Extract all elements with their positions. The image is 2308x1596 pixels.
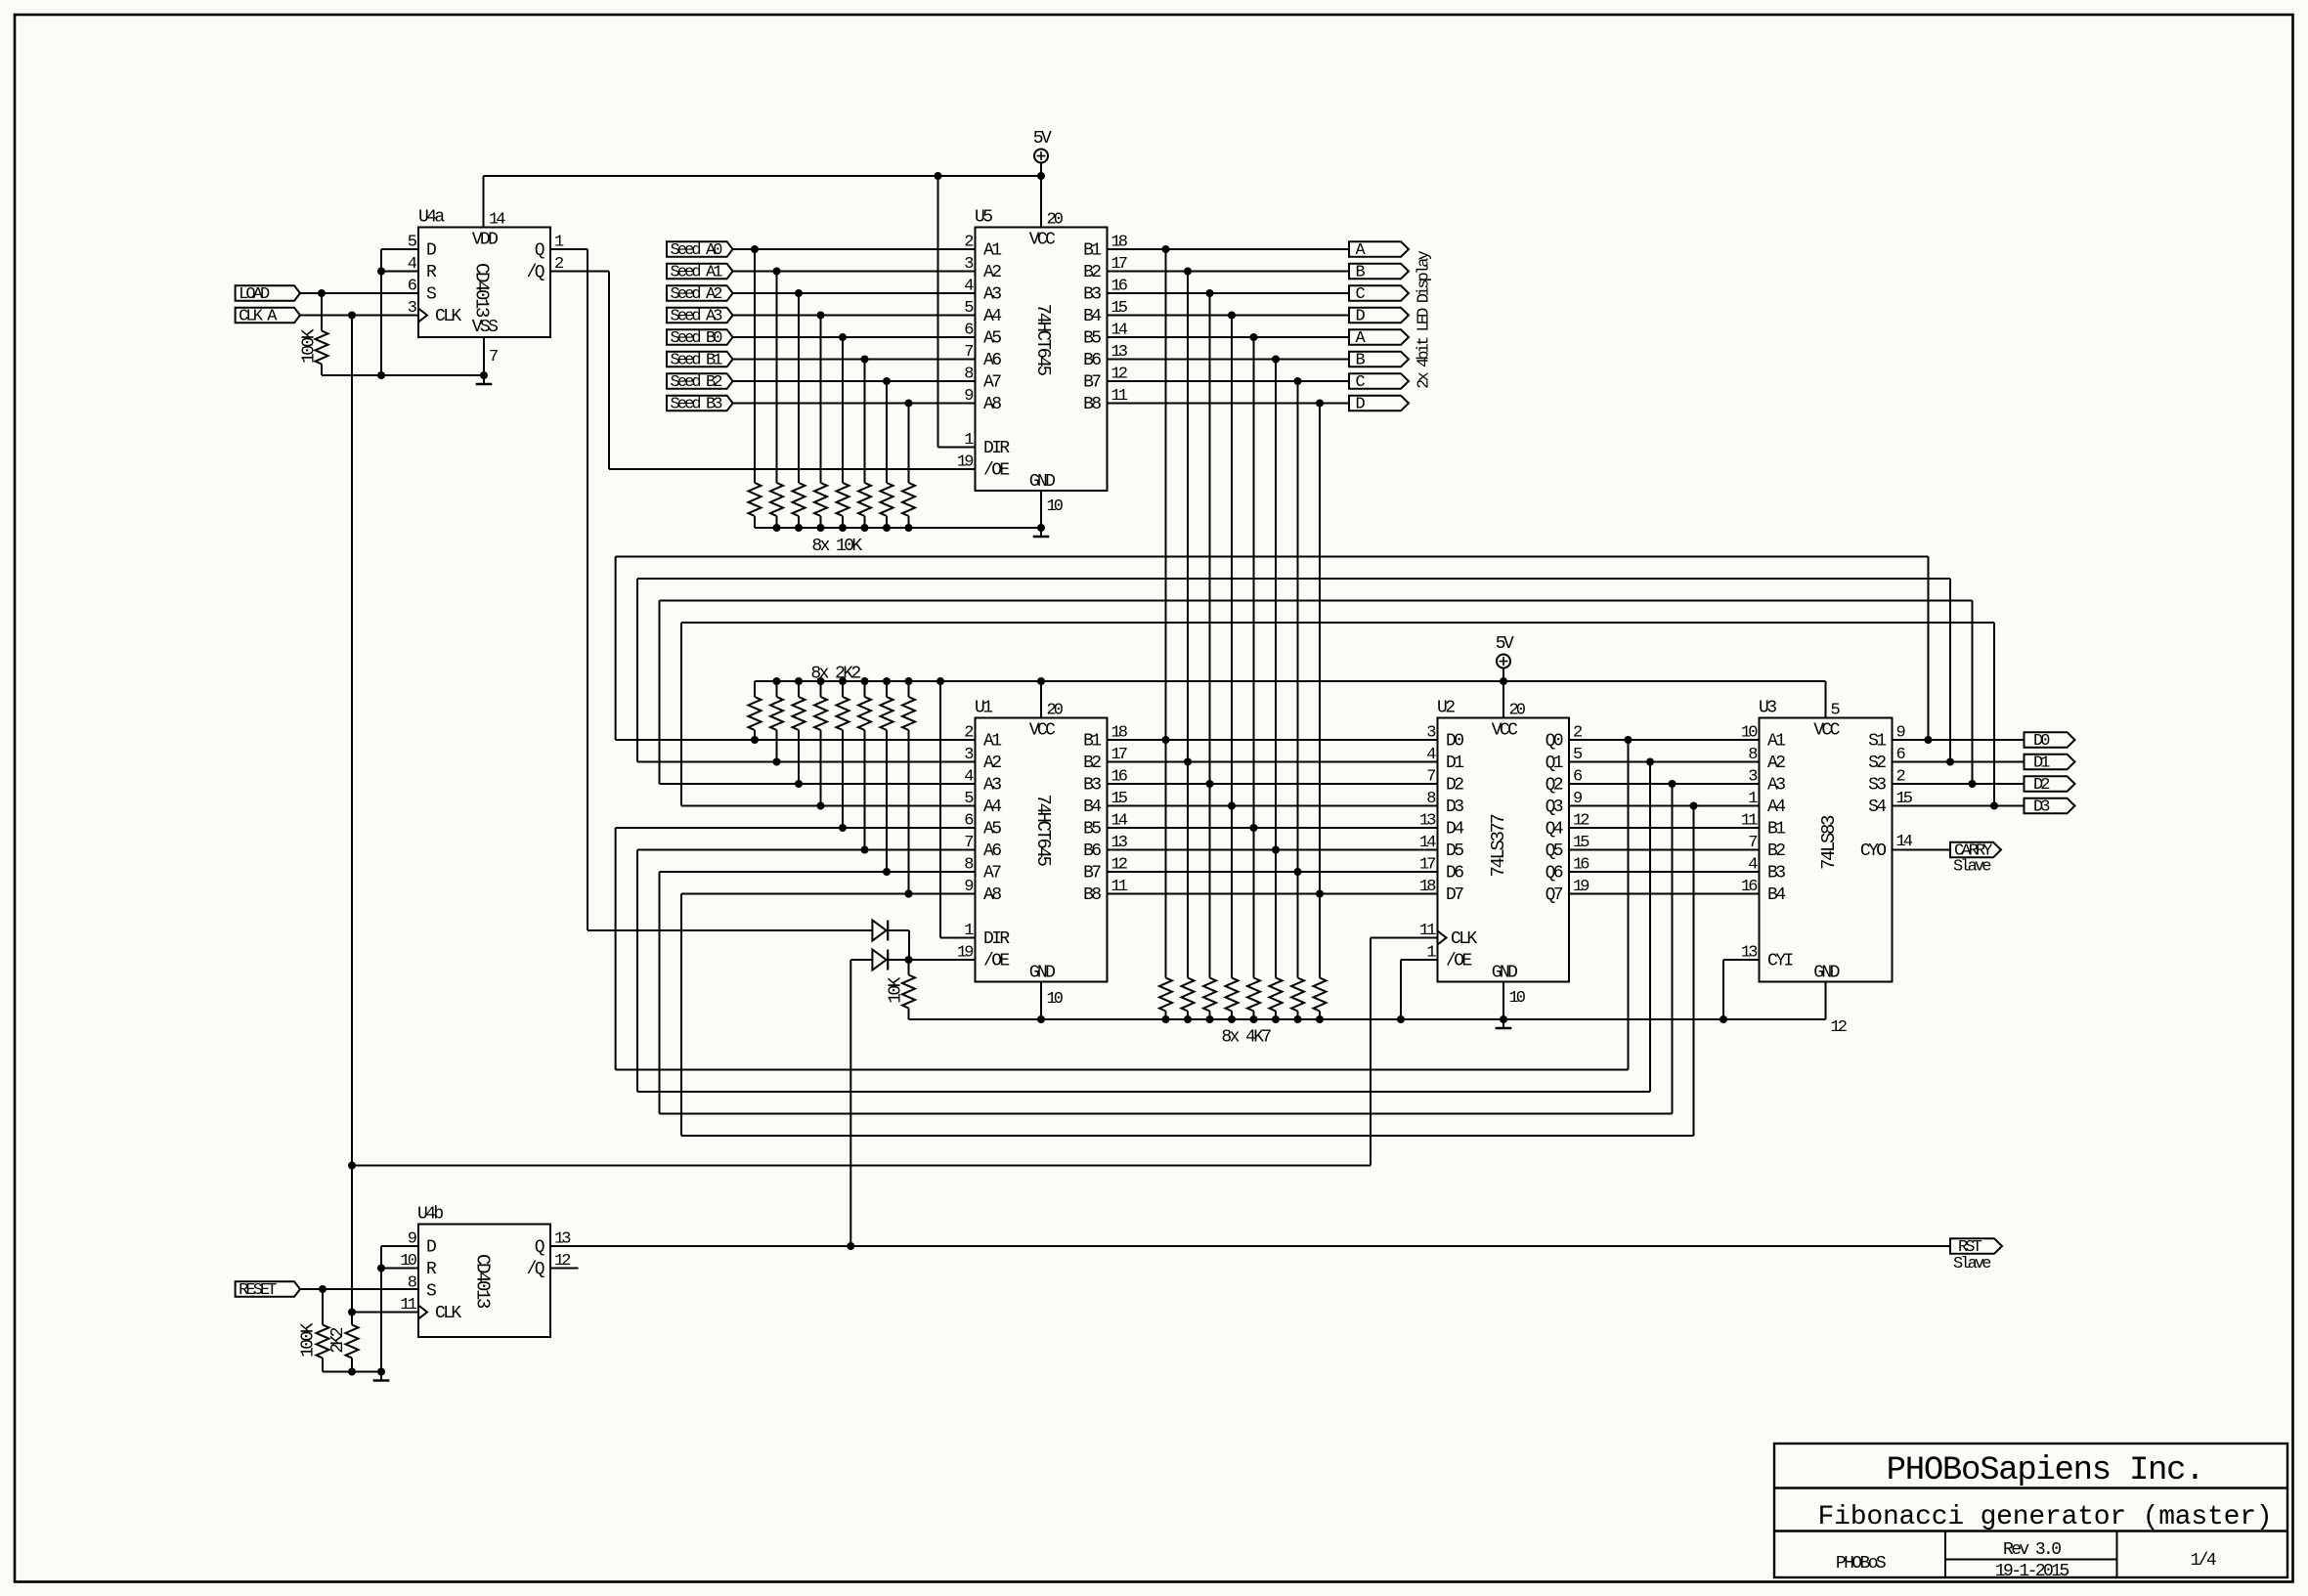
junction 10K rail bbox=[817, 524, 825, 532]
junction U1 A2 / 2K2 bbox=[773, 758, 781, 766]
wire data bus D3 row (U1 B4 to U2 D3) bbox=[1108, 805, 1438, 807]
wire U4b CLK bbox=[352, 1312, 418, 1314]
svg-text:/OE: /OE bbox=[983, 460, 1009, 480]
output label D3 bbox=[2025, 798, 2075, 816]
svg-text:/OE: /OE bbox=[1446, 951, 1471, 971]
resistor 100K (LOAD pulldown) bbox=[300, 293, 328, 375]
U4b pin names and numbers bbox=[400, 1230, 571, 1323]
wire U5 B1 to display label bbox=[1108, 248, 1350, 250]
svg-text:B2: B2 bbox=[1767, 841, 1785, 861]
svg-text:B4: B4 bbox=[1767, 885, 1785, 905]
svg-text:D1: D1 bbox=[1446, 754, 1463, 773]
svg-text:74HCT645: 74HCT645 bbox=[1032, 794, 1054, 866]
junction U5 B6 / data column bbox=[1272, 356, 1280, 364]
svg-text:CD4013: CD4013 bbox=[472, 1254, 494, 1309]
resistor 4K7 #4 (bus pulldown) bbox=[1226, 978, 1239, 1020]
svg-text:A3: A3 bbox=[983, 284, 1001, 304]
svg-text:B6: B6 bbox=[1083, 351, 1101, 370]
svg-text:CLK A: CLK A bbox=[239, 307, 278, 325]
junction U4a R bbox=[377, 268, 385, 276]
wire feedback bus S4 bbox=[681, 623, 1994, 806]
wire diode D2 anode vertical bbox=[850, 960, 872, 1246]
output label RST bbox=[1950, 1238, 2002, 1257]
junction GND rail / 4K7 bbox=[1184, 1015, 1192, 1023]
junction LOAD / 100K bbox=[318, 289, 326, 297]
svg-text:Q4: Q4 bbox=[1546, 819, 1563, 839]
svg-text:VCC: VCC bbox=[1029, 721, 1056, 741]
wire CLK A to U4a CLK bbox=[299, 315, 418, 317]
wire data bus D7 row (U1 B8 to U2 D7) bbox=[1108, 893, 1438, 895]
wire U2 Q5 to U3 bbox=[1569, 849, 1760, 851]
resistor 2K2 #8 (U1 A8 pullup) bbox=[902, 681, 915, 730]
wire U5 B7 to display label bbox=[1108, 380, 1350, 382]
junction U5 B3 / data column bbox=[1206, 289, 1214, 297]
svg-text:A6: A6 bbox=[983, 351, 1001, 370]
junction 5V rail / U1 DIR bbox=[936, 677, 944, 685]
svg-text:Q2: Q2 bbox=[1546, 775, 1563, 795]
wire 2K2 #8 to U1 A8 bbox=[908, 730, 910, 894]
junction U1 A8 / 2K2 col bbox=[905, 890, 913, 898]
junction data bus D0 bbox=[1162, 736, 1170, 744]
svg-text:/OE: /OE bbox=[983, 951, 1009, 971]
junction U4b R bbox=[377, 1265, 385, 1272]
svg-text:GND: GND bbox=[1029, 472, 1055, 492]
junction 10K rail bbox=[795, 524, 803, 532]
U4b CLK input mark bbox=[418, 1306, 427, 1319]
junction RESET / 100K bbox=[319, 1285, 327, 1293]
wire U5 B5 to display label bbox=[1108, 336, 1350, 338]
svg-text:A5: A5 bbox=[983, 819, 1001, 839]
junction 5V rail / 2K2 bbox=[883, 677, 891, 685]
wire U2 Q6 to U3 bbox=[1569, 871, 1760, 873]
wire U4a pin14 VDD riser bbox=[483, 176, 485, 228]
svg-text:B3: B3 bbox=[1083, 775, 1101, 795]
U4a CLK input mark bbox=[418, 309, 427, 323]
wire U2 Q2 to U3 bbox=[1569, 783, 1760, 785]
svg-text:Slave: Slave bbox=[1953, 1255, 1991, 1273]
wire U4b ground rail bbox=[323, 1371, 381, 1373]
svg-text:B2: B2 bbox=[1083, 263, 1101, 282]
wire U4a pin7 VSS riser bbox=[483, 337, 485, 375]
svg-text:CLK: CLK bbox=[435, 1304, 461, 1323]
junction Seed B1 column bbox=[861, 356, 869, 364]
svg-text:5V: 5V bbox=[1033, 129, 1052, 149]
junction U5 B8 / data column bbox=[1316, 400, 1324, 408]
svg-text:Q0: Q0 bbox=[1546, 731, 1563, 751]
diode D1 (Q to /OE) bbox=[872, 921, 888, 941]
junction U4b ground rail / 2K2 bbox=[348, 1368, 356, 1376]
junction CLK A vertical / U2 CLK branch bbox=[348, 1162, 356, 1170]
junction 10K rail bbox=[839, 524, 847, 532]
svg-text:A4: A4 bbox=[983, 798, 1001, 817]
svg-text:DIR: DIR bbox=[983, 929, 1010, 949]
wire 2K2 #6 to U1 A6 bbox=[864, 730, 866, 850]
U2 CLK input mark bbox=[1438, 931, 1447, 945]
wire Seed A2 column down bbox=[798, 293, 800, 483]
wire Seed B0 column down bbox=[842, 337, 844, 483]
wire U2 Q4 to U3 bbox=[1569, 827, 1760, 829]
svg-text:CYI: CYI bbox=[1767, 951, 1793, 971]
svg-text:8x 2K2: 8x 2K2 bbox=[810, 665, 860, 684]
wire Seed B3 to U5 A8 bbox=[733, 403, 976, 405]
junction U4b ground rail / D-R bbox=[377, 1368, 385, 1376]
junction GND rail / 4K7 bbox=[1294, 1015, 1302, 1023]
wire 2K2 #4 to U1 A4 bbox=[820, 730, 822, 806]
svg-text:B4: B4 bbox=[1083, 798, 1101, 817]
junction 5V rail / 2K2 bbox=[905, 677, 913, 685]
wire LOAD to U4a S bbox=[299, 292, 418, 294]
wire U4b Q to RST label bbox=[550, 1245, 1950, 1247]
svg-text:PHOBoS: PHOBoS bbox=[1836, 1554, 1886, 1574]
wire VDD top rail bbox=[484, 175, 1042, 177]
wire data bus D2 row (U1 B3 to U2 D2) bbox=[1108, 783, 1438, 785]
resistor 2K2 #2 (U1 A2 pullup) bbox=[770, 681, 783, 730]
junction U5 B4 / data column bbox=[1228, 312, 1236, 320]
wire U4a Q to diode bbox=[550, 249, 872, 930]
resistor 10K #1 (Seed A0 pulldown) bbox=[749, 483, 762, 528]
svg-text:VCC: VCC bbox=[1492, 721, 1518, 741]
svg-text:Q: Q bbox=[535, 240, 544, 260]
junction CLK A vertical / U4b CLK / 2K2 bbox=[348, 1309, 356, 1316]
svg-text:RESET: RESET bbox=[239, 1281, 277, 1300]
wire Seed B1 column down bbox=[864, 360, 866, 484]
wire feedback bus Q3 (to U1 A8) bbox=[681, 806, 1694, 1137]
wire U5 B4 to display label bbox=[1108, 315, 1350, 317]
output label D (display) bbox=[1349, 307, 1409, 325]
junction GND rail / 4K7 bbox=[1206, 1015, 1214, 1023]
svg-text:Q3: Q3 bbox=[1546, 798, 1563, 817]
junction data bus D3 bbox=[1228, 802, 1236, 810]
junction Seed B0 column bbox=[839, 333, 847, 341]
wire U4b D-R tie bbox=[381, 1246, 418, 1372]
svg-text:A4: A4 bbox=[983, 307, 1001, 326]
junction 5V rail / U1 VCC bbox=[1037, 677, 1045, 685]
ground (U4a VSS) bbox=[476, 375, 493, 384]
resistor 2K2 #7 (U1 A7 pullup) bbox=[881, 681, 893, 730]
svg-text:U4a: U4a bbox=[418, 208, 445, 228]
wire U4a D-R tie bbox=[381, 249, 418, 375]
resistor 10K #3 (Seed A2 pulldown) bbox=[793, 483, 806, 528]
ground (U5 GND) bbox=[1033, 528, 1050, 537]
svg-text:Q6: Q6 bbox=[1546, 863, 1563, 883]
wire U4a /Q to U5 /OE bbox=[550, 272, 976, 470]
input label Seed A2 bbox=[667, 285, 733, 304]
resistor 10K (U1 /OE pulldown) bbox=[887, 960, 916, 1019]
resistor 2K2 #4 (U1 A4 pullup) bbox=[814, 681, 827, 730]
svg-text:B5: B5 bbox=[1083, 819, 1101, 839]
diode D2 (RST to /OE) bbox=[872, 950, 888, 971]
wire data bus D6 vertical bbox=[1297, 381, 1299, 978]
svg-text:74LS377: 74LS377 bbox=[1488, 814, 1509, 877]
junction 10K rail / U5 GND bbox=[1037, 524, 1045, 532]
wire U1 pin10 GND riser bbox=[1040, 982, 1042, 1020]
wire U3 CYI tie-low bbox=[1723, 960, 1760, 1019]
svg-text:Seed B2: Seed B2 bbox=[671, 373, 722, 392]
svg-text:GND: GND bbox=[1813, 964, 1839, 983]
svg-text:A7: A7 bbox=[983, 863, 1001, 883]
output label D2 bbox=[2025, 776, 2075, 795]
junction GND rail / U2 GND bbox=[1500, 1015, 1507, 1023]
junction U4a ground rail / D-R bbox=[377, 371, 385, 379]
junction 5V rail / 2K2 bbox=[817, 677, 825, 685]
junction Seed B3 column bbox=[905, 400, 913, 408]
junction GND rail / 4K7 bbox=[1316, 1015, 1324, 1023]
output label D1 bbox=[2025, 754, 2075, 772]
junction U2 Q0 row / feedback bus bbox=[1625, 736, 1633, 744]
wire U5 B6 to display label bbox=[1108, 359, 1350, 361]
junction U1 /OE / 10K / diode bbox=[905, 956, 913, 964]
input label LOAD bbox=[236, 285, 300, 304]
wire U1 A4 row bbox=[681, 805, 976, 807]
svg-text:U1: U1 bbox=[975, 699, 992, 718]
svg-text:GND: GND bbox=[1029, 964, 1055, 983]
wire CLK A vertical bbox=[351, 316, 353, 1313]
svg-text:RST: RST bbox=[1958, 1238, 1982, 1257]
wire data bus D4 row (U1 B5 to U2 D4) bbox=[1108, 827, 1438, 829]
title block frame bbox=[1774, 1444, 2287, 1577]
output label C (display) bbox=[1349, 373, 1409, 392]
svg-text:D2: D2 bbox=[2033, 776, 2049, 795]
svg-text:S: S bbox=[426, 1281, 436, 1301]
junction data bus D6 bbox=[1294, 868, 1302, 876]
junction 10K rail bbox=[883, 524, 891, 532]
junction S4 row / feedback bus bbox=[1990, 802, 1998, 810]
svg-text:R: R bbox=[426, 1260, 437, 1279]
svg-text:Seed A1: Seed A1 bbox=[671, 263, 723, 281]
junction 5V rail / 2K2 bbox=[795, 677, 803, 685]
resistor 2K2 #5 (U1 A5 pullup) bbox=[837, 681, 849, 730]
svg-text:U5: U5 bbox=[975, 208, 992, 228]
wire 10K bottom rail to GND bbox=[755, 527, 1041, 529]
svg-text:B1: B1 bbox=[1083, 731, 1101, 751]
svg-text:100K: 100K bbox=[299, 1322, 319, 1358]
svg-text:2x 4bit LED Display: 2x 4bit LED Display bbox=[1415, 250, 1434, 388]
junction U5 B7 / data column bbox=[1294, 377, 1302, 385]
wire data bus D0 row (U1 B1 to U2 D0) bbox=[1108, 739, 1438, 741]
wire data bus D1 row (U1 B2 to U2 D1) bbox=[1108, 761, 1438, 763]
svg-text:Seed A2: Seed A2 bbox=[671, 285, 722, 304]
junction data bus D2 bbox=[1206, 780, 1214, 788]
svg-text:A4: A4 bbox=[1767, 798, 1785, 817]
junction U1 A6 / 2K2 bbox=[861, 846, 869, 854]
svg-text:A3: A3 bbox=[983, 775, 1001, 795]
svg-text:Q: Q bbox=[535, 1237, 544, 1257]
resistor 10K #7 (Seed B2 pulldown) bbox=[881, 483, 893, 528]
junction 5V rail / 5V symbol / U2 VCC bbox=[1500, 677, 1507, 685]
svg-text:A1: A1 bbox=[983, 240, 1001, 260]
svg-text:CLK: CLK bbox=[1451, 929, 1477, 949]
input label CLK A bbox=[236, 307, 300, 325]
input label Seed B2 bbox=[667, 373, 733, 392]
wire U3 S4 to D3 label bbox=[1893, 805, 2025, 807]
output label D0 bbox=[2025, 732, 2075, 751]
svg-text:Slave: Slave bbox=[1953, 857, 1991, 876]
junction U2 Q1 row / feedback bus bbox=[1646, 758, 1654, 766]
wire U2 Q0 to U3 bbox=[1569, 739, 1760, 741]
svg-text:D6: D6 bbox=[1446, 863, 1463, 883]
resistor 10K #5 (Seed B0 pulldown) bbox=[837, 483, 849, 528]
junction data bus D5 bbox=[1272, 846, 1280, 854]
junction GND rail / 4K7 bbox=[1272, 1015, 1280, 1023]
junction Seed A0 column bbox=[751, 245, 759, 253]
junction U1 A1 / 2K2 bbox=[751, 736, 759, 744]
wire U5 pin20 VCC riser bbox=[1040, 176, 1042, 228]
resistor 4K7 #2 (bus pulldown) bbox=[1182, 978, 1195, 1020]
wire 2K2 #3 to U1 A3 bbox=[798, 730, 800, 784]
junction U2 Q3 row / feedback bus bbox=[1690, 802, 1698, 810]
svg-text:2K2: 2K2 bbox=[328, 1327, 348, 1353]
svg-text:/Q: /Q bbox=[527, 1260, 544, 1279]
wire data bus D5 vertical bbox=[1275, 360, 1277, 978]
junction RST / diode D2 anode bbox=[847, 1242, 854, 1250]
wire U4a ground rail bbox=[322, 374, 484, 376]
U5 pin names and numbers bbox=[957, 211, 1128, 517]
junction CLK A / vertical bbox=[348, 312, 356, 320]
resistor 10K #8 (Seed B3 pulldown) bbox=[902, 483, 915, 528]
wire RESET to U4b S bbox=[299, 1288, 418, 1290]
junction GND rail / 4K7 bbox=[1228, 1015, 1236, 1023]
svg-text:DIR: DIR bbox=[983, 439, 1010, 458]
junction GND rail / U3 CYI bbox=[1720, 1015, 1727, 1023]
input label Seed B0 bbox=[667, 329, 733, 348]
svg-text:10: 10 bbox=[1047, 990, 1064, 1009]
junction GND rail / U2 /OE bbox=[1397, 1015, 1405, 1023]
svg-text:S4: S4 bbox=[1868, 798, 1886, 817]
wire Seed A3 column down bbox=[820, 316, 822, 484]
wire data bus D7 vertical bbox=[1319, 404, 1321, 978]
input label Seed A0 bbox=[667, 241, 733, 260]
svg-text:A8: A8 bbox=[983, 885, 1001, 905]
svg-text:10K: 10K bbox=[887, 976, 906, 1003]
svg-text:CD4013: CD4013 bbox=[471, 263, 493, 318]
wire U2 pin20 VCC riser bbox=[1502, 681, 1504, 718]
svg-text:B7: B7 bbox=[1083, 863, 1101, 883]
wire U5 B2 to display label bbox=[1108, 271, 1350, 273]
junction 10K rail bbox=[905, 524, 913, 532]
wire U1 A3 row bbox=[660, 783, 976, 785]
junction data bus D4 bbox=[1250, 824, 1258, 832]
svg-text:10: 10 bbox=[1509, 989, 1526, 1008]
wire data bus D6 row (U1 B7 to U2 D6) bbox=[1108, 871, 1438, 873]
junction data bus D1 bbox=[1184, 758, 1192, 766]
output label A (display) bbox=[1349, 329, 1409, 348]
wire feedback bus Q1 (to U1 A6) bbox=[637, 762, 1650, 1093]
svg-text:D: D bbox=[426, 1237, 436, 1257]
svg-text:12: 12 bbox=[1831, 1018, 1847, 1037]
wire Seed A0 column down bbox=[754, 249, 756, 483]
wire Seed A1 column down bbox=[776, 272, 778, 484]
svg-text:14: 14 bbox=[1896, 833, 1913, 851]
resistor 10K #4 (Seed A3 pulldown) bbox=[814, 483, 827, 528]
resistor 2K2 #3 (U1 A3 pullup) bbox=[793, 681, 806, 730]
wire U2 pin10 GND riser bbox=[1502, 982, 1504, 1020]
resistor 10K #2 (Seed A1 pulldown) bbox=[770, 483, 783, 528]
svg-text:Rev 3.0: Rev 3.0 bbox=[2003, 1540, 2061, 1560]
wire feedback bus Q0 (to U1 A5) bbox=[616, 740, 1629, 1070]
wire data bus D1 vertical bbox=[1187, 272, 1189, 978]
wire U1 DIR tie-high bbox=[940, 681, 976, 938]
junction U1 A8 / 2K2 bbox=[905, 890, 913, 898]
junction data bus D7 bbox=[1316, 890, 1324, 898]
svg-text:B2: B2 bbox=[1083, 754, 1101, 773]
wire data bus D5 row (U1 B6 to U2 D5) bbox=[1108, 849, 1438, 851]
svg-text:8x 4K7: 8x 4K7 bbox=[1221, 1028, 1271, 1048]
wire feedback bus S3 bbox=[660, 601, 1973, 785]
svg-text:B4: B4 bbox=[1083, 307, 1101, 326]
wire 5V rail (2K2 pullup rail) bbox=[755, 680, 1826, 682]
svg-text:VDD: VDD bbox=[472, 231, 498, 250]
svg-text:LOAD: LOAD bbox=[239, 285, 270, 304]
svg-text:D: D bbox=[426, 240, 436, 260]
wire U2 Q1 to U3 bbox=[1569, 761, 1760, 763]
wire 2K2 #5 to U1 A5 bbox=[842, 730, 844, 828]
wire U3 pin5 VCC riser bbox=[1825, 681, 1827, 718]
output label CARRY bbox=[1950, 841, 2001, 860]
wire U4b /Q stub bbox=[550, 1268, 579, 1270]
svg-text:R: R bbox=[426, 263, 437, 282]
svg-text:S3: S3 bbox=[1868, 775, 1886, 795]
resistor 4K7 #7 (bus pulldown) bbox=[1291, 978, 1304, 1020]
IC U5 74HCT645 box bbox=[976, 228, 1108, 492]
U1 pin names and numbers bbox=[957, 702, 1128, 1010]
resistor 4K7 #5 (bus pulldown) bbox=[1247, 978, 1260, 1020]
junction U1 A3 / 2K2 bbox=[795, 780, 803, 788]
flip-flop U4a CD4013 box bbox=[418, 228, 550, 338]
junction S3 row / feedback bus bbox=[1969, 780, 1977, 788]
svg-text:Q7: Q7 bbox=[1546, 885, 1563, 905]
wire U5 pin10 GND riser bbox=[1040, 491, 1042, 528]
svg-text:VCC: VCC bbox=[1029, 231, 1056, 250]
junction U1 A4 / 2K2 bbox=[817, 802, 825, 810]
svg-text:CYO: CYO bbox=[1860, 841, 1886, 861]
junction Seed A1 column bbox=[773, 268, 781, 276]
svg-text:A3: A3 bbox=[1767, 775, 1785, 795]
svg-text:VSS: VSS bbox=[472, 318, 498, 337]
svg-text:U3: U3 bbox=[1759, 699, 1776, 718]
resistor 4K7 #8 (bus pulldown) bbox=[1314, 978, 1327, 1020]
wire U3 pin12 GND riser bbox=[1825, 982, 1827, 1020]
wire feedback bus Q2 (to U1 A7) bbox=[660, 784, 1673, 1114]
svg-text:D0: D0 bbox=[1446, 731, 1463, 751]
input label RESET bbox=[236, 1281, 300, 1300]
svg-text:A6: A6 bbox=[983, 841, 1001, 861]
IC U2 74LS377 box bbox=[1438, 718, 1570, 982]
svg-text:Fibonacci generator (master): Fibonacci generator (master) bbox=[1818, 1502, 2273, 1532]
input label Seed B1 bbox=[667, 351, 733, 369]
svg-text:10: 10 bbox=[1047, 497, 1064, 516]
junction GND rail / U1 GND bbox=[1037, 1015, 1045, 1023]
resistor 100K (RESET pulldown) bbox=[299, 1289, 329, 1372]
wire 2K2 #1 to U1 A1 bbox=[754, 730, 756, 740]
svg-text:B3: B3 bbox=[1767, 863, 1785, 883]
IC U1 74HCT645 box bbox=[976, 718, 1108, 982]
svg-text:A2: A2 bbox=[1767, 754, 1785, 773]
IC U3 74LS83 box bbox=[1760, 718, 1893, 982]
ground (U2 GND) bbox=[1496, 1019, 1512, 1028]
wire data bus D0 vertical bbox=[1165, 249, 1167, 978]
wire U5 B3 to display label bbox=[1108, 292, 1350, 294]
junction top rail / 5V bbox=[1037, 172, 1045, 180]
junction U5 B2 / data column bbox=[1184, 268, 1192, 276]
wire Seed B0 to U5 A5 bbox=[733, 336, 976, 338]
svg-text:B8: B8 bbox=[1083, 395, 1101, 414]
svg-text:B7: B7 bbox=[1083, 372, 1101, 392]
wire Seed A0 to U5 A1 bbox=[733, 248, 976, 250]
output label B (display) bbox=[1349, 351, 1409, 369]
junction 5V rail / 2K2 bbox=[773, 677, 781, 685]
wire U2 Q7 to U3 bbox=[1569, 893, 1760, 895]
power 5V symbol (middle) bbox=[1496, 634, 1514, 681]
